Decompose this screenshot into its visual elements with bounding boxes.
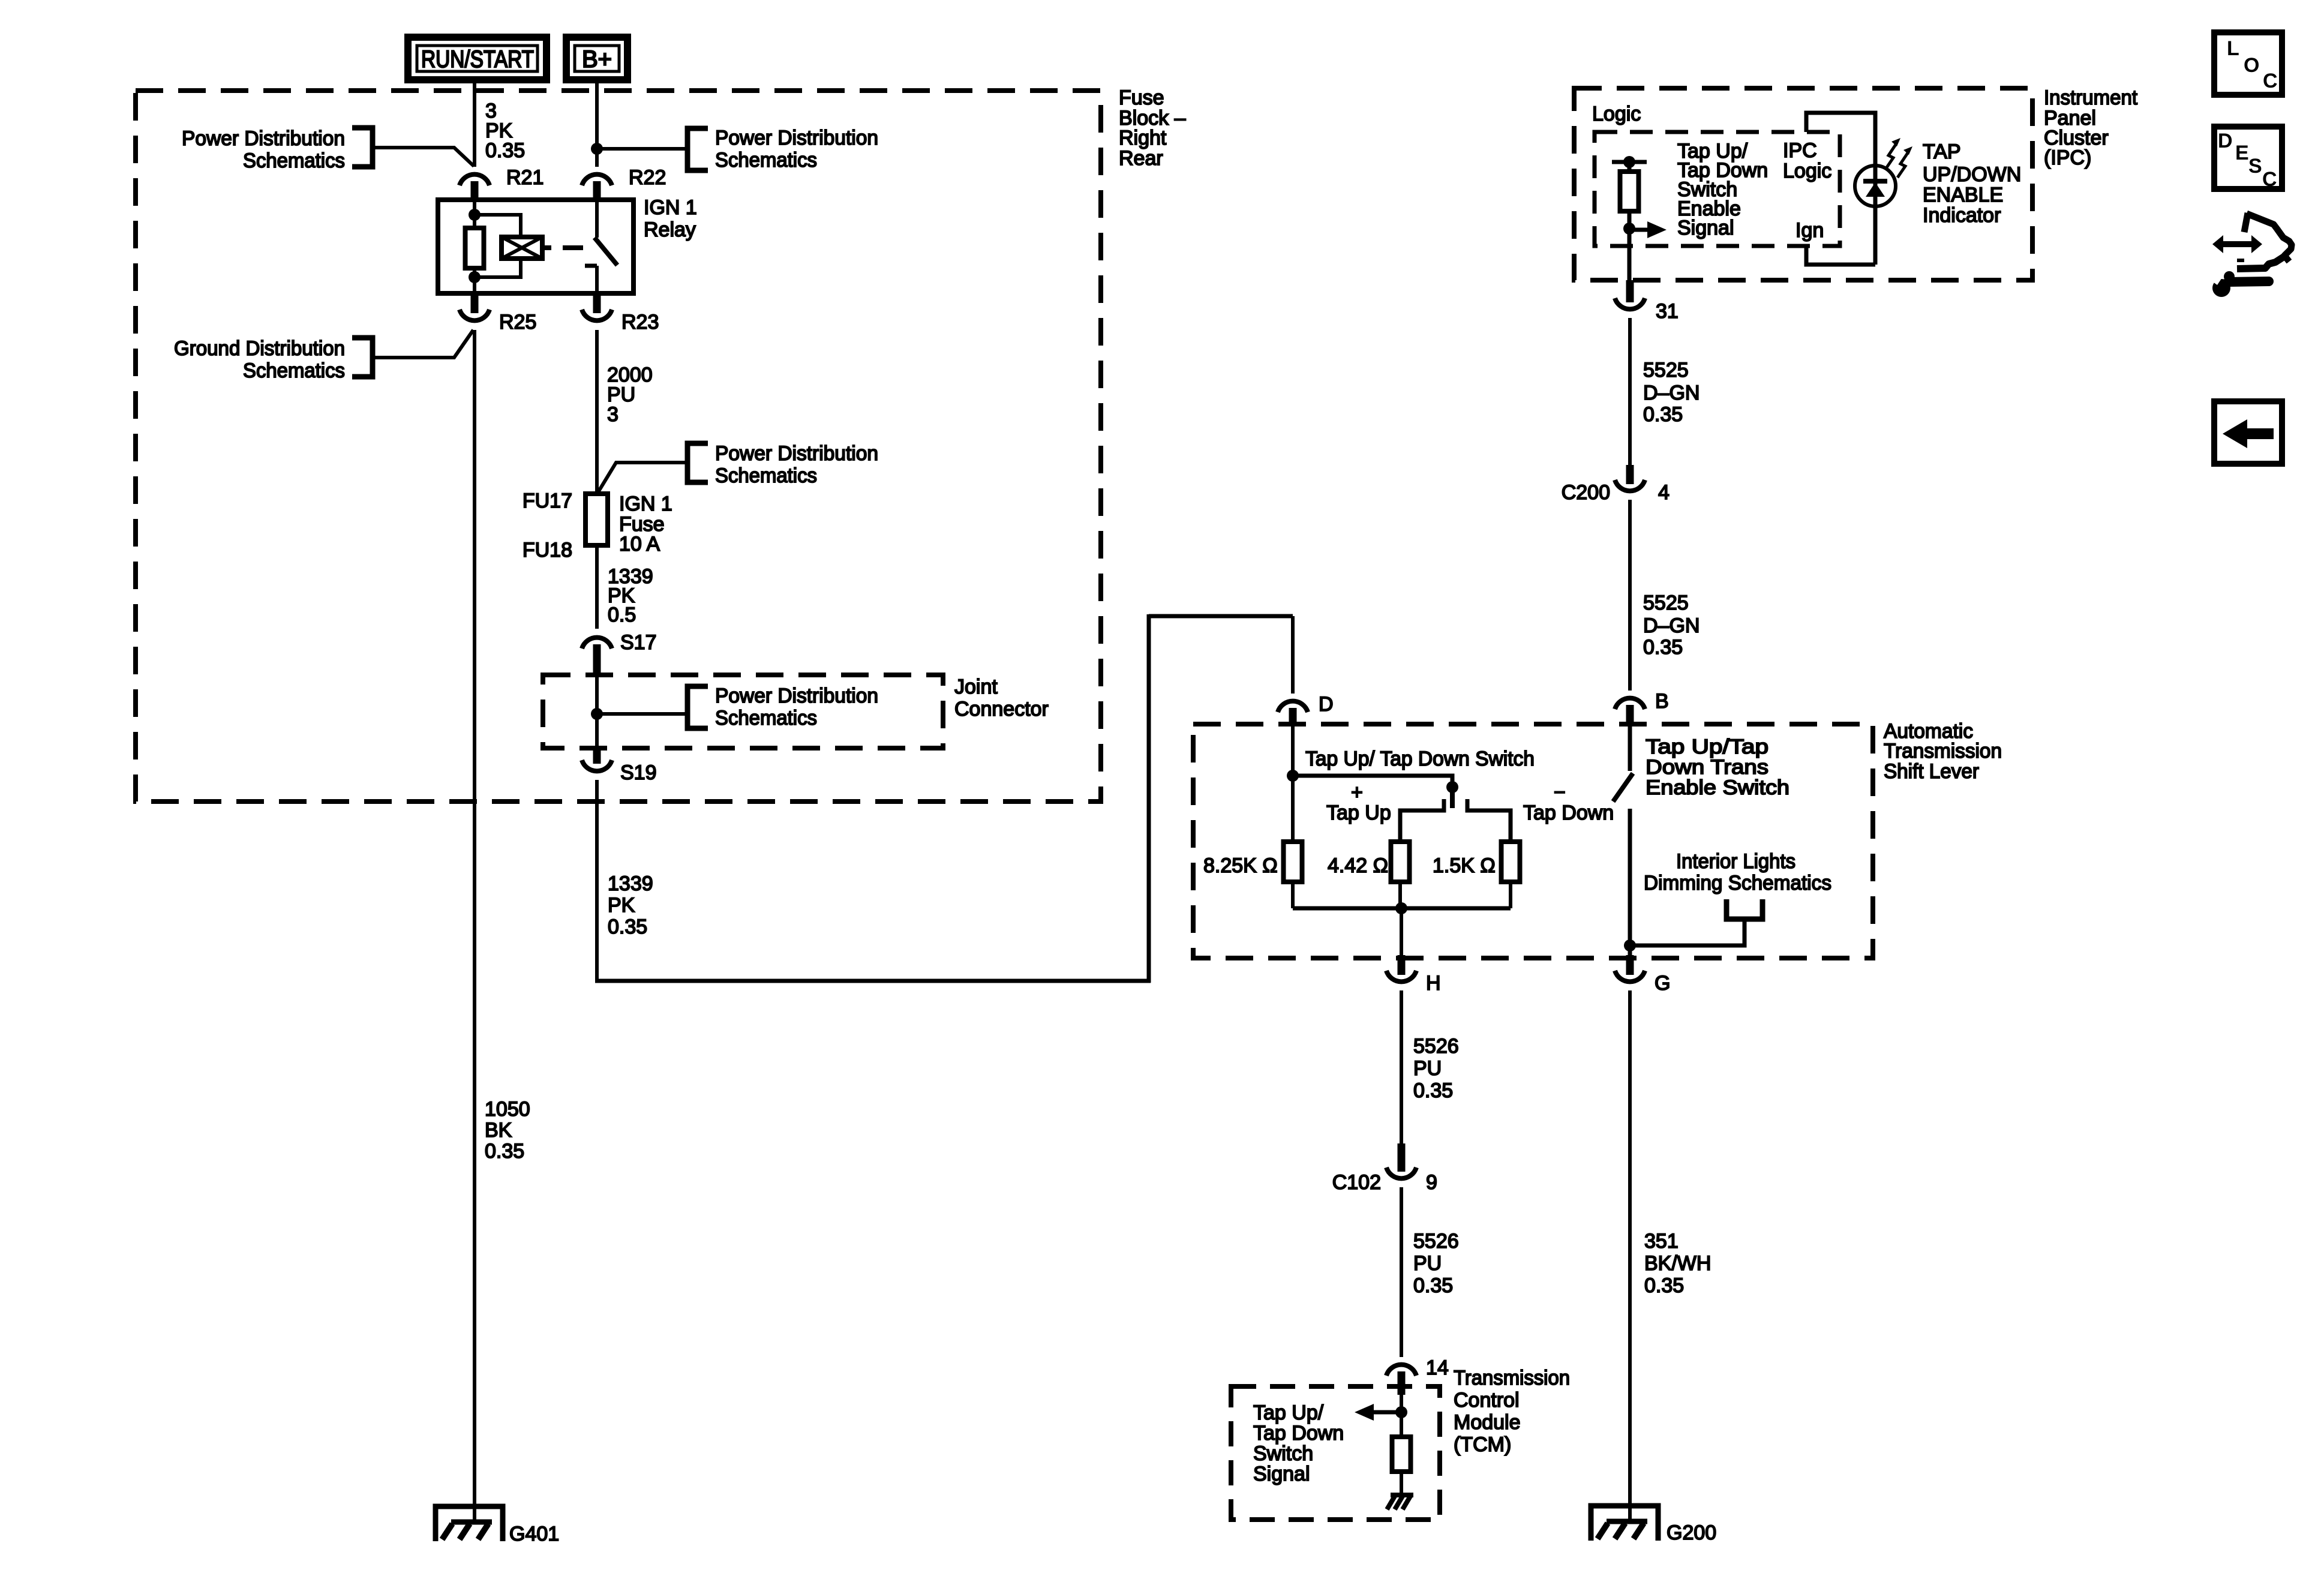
icon box back arrow <box>2214 401 2282 464</box>
resistor 1.5K <box>1502 842 1520 882</box>
svg-text:L: L <box>2227 37 2239 60</box>
wire R25 to G401 (1050 BK) <box>473 330 476 1522</box>
wire top jog to D <box>1149 614 1293 619</box>
svg-text:Schematics: Schematics <box>243 149 345 172</box>
svg-text:0.35: 0.35 <box>1413 1079 1453 1102</box>
connector 31 <box>1615 280 1679 323</box>
svg-text:0.35: 0.35 <box>485 1140 524 1163</box>
svg-text:B: B <box>1655 690 1669 713</box>
svg-text:FU17: FU17 <box>523 490 572 512</box>
svg-text:Tap Down: Tap Down <box>1523 801 1614 824</box>
icon repair (part outline) <box>2237 213 2292 269</box>
svg-text:4: 4 <box>1658 481 1670 504</box>
svg-text:0.35: 0.35 <box>608 915 647 938</box>
wire junction to bracket (joint) <box>597 712 686 716</box>
label IGN 1 Relay <box>644 196 697 241</box>
junction node arrow <box>1623 223 1635 235</box>
signal arrow (points left) <box>1355 1404 1401 1421</box>
label circuit 5525 D-GN 0.35 (lower) <box>1643 592 1700 659</box>
enable signal arrow (points right) <box>1629 221 1667 238</box>
label circuit 5526 PU 0.35 (upper) <box>1413 1035 1459 1102</box>
svg-text:R22: R22 <box>629 166 666 189</box>
relay coil resistor <box>466 228 484 268</box>
resistor 4.42 <box>1391 842 1410 882</box>
automatic transmission shift lever dashed box <box>1193 724 1873 958</box>
coil loop wire top <box>475 215 521 237</box>
svg-text:Control: Control <box>1454 1389 1520 1412</box>
label Fuse Block - Right Rear <box>1119 86 1186 170</box>
svg-text:Down Trans: Down Trans <box>1646 756 1768 779</box>
connector S17 <box>582 631 657 675</box>
transmission control module dashed box <box>1231 1386 1440 1520</box>
svg-text:1050: 1050 <box>485 1098 530 1121</box>
bracket for Interior Lights Dimming <box>1727 899 1762 919</box>
relay switch wire lower <box>595 266 599 293</box>
wire G to G200 (351 BK/WH) <box>1628 990 1632 1521</box>
svg-text:G401: G401 <box>509 1523 559 1545</box>
svg-text:PU: PU <box>1413 1057 1442 1080</box>
icon repair (wrench) <box>2199 265 2269 297</box>
coil loop wire bottom <box>475 259 521 277</box>
junction node dimming branch <box>1624 939 1636 951</box>
wire H to C102 (5526 PU) <box>1400 990 1403 1143</box>
relay switch blade <box>594 238 617 265</box>
destination label Power Distribution Schematics (joint) <box>715 685 878 730</box>
svg-text:TAP: TAP <box>1923 140 1961 163</box>
indicator LED circle <box>1855 166 1896 206</box>
svg-text:G200: G200 <box>1667 1521 1716 1544</box>
svg-text:Power Distribution: Power Distribution <box>182 127 345 150</box>
TCM pull resistor <box>1392 1437 1411 1472</box>
svg-text:E: E <box>2235 142 2249 164</box>
connector R21 <box>460 166 544 200</box>
connector R22 <box>582 166 666 200</box>
wire 31 to C200 (5525 D-GN) <box>1628 318 1632 465</box>
svg-text:S19: S19 <box>620 761 657 784</box>
svg-text:D: D <box>1319 693 1334 716</box>
svg-text:IGN 1: IGN 1 <box>644 196 697 219</box>
junction node bottom bus <box>1395 902 1407 914</box>
relay switch wire upper <box>595 200 599 238</box>
IPC logic inner dashed box <box>1595 132 1840 246</box>
svg-text:14: 14 <box>1426 1356 1449 1379</box>
wire D into box <box>1291 724 1295 842</box>
svg-text:PK: PK <box>608 894 635 917</box>
svg-text:Switch: Switch <box>1253 1442 1313 1465</box>
enable signal T-bar <box>1612 160 1647 164</box>
bracket for Power Distribution (joint) <box>687 686 708 728</box>
IPC enable resistor <box>1620 172 1639 211</box>
svg-text:IGN 1: IGN 1 <box>619 493 672 515</box>
label circuit 2000 PU 3 <box>607 364 653 426</box>
svg-text:PU: PU <box>1413 1252 1442 1275</box>
bracket for Power Distribution (R22) <box>687 128 708 170</box>
svg-text:5525: 5525 <box>1643 592 1689 614</box>
svg-text:Enable Switch: Enable Switch <box>1646 776 1789 799</box>
label circuit 1050 BK 0.35 <box>485 1098 530 1163</box>
svg-text:Rear: Rear <box>1119 147 1163 170</box>
svg-text:Indicator: Indicator <box>1923 204 2001 227</box>
label circuit 1339 PK 0.5 <box>608 565 653 626</box>
LED return wire bottom <box>1806 246 1875 265</box>
wire T-bar to resistor <box>1628 162 1632 172</box>
svg-text:(TCM): (TCM) <box>1454 1433 1511 1456</box>
wire RUN/START to R21 <box>473 80 476 167</box>
junction node switch pole <box>1446 781 1458 793</box>
wire S19 down (1339 PK 0.35) <box>595 780 599 983</box>
svg-text:Instrument: Instrument <box>2044 86 2138 109</box>
wire R23 to fuse (2000 PU) <box>595 330 599 494</box>
connector C102 pin 9 <box>1332 1143 1437 1194</box>
icon box LOC <box>2214 32 2282 95</box>
wire riser up <box>1147 614 1151 983</box>
LED feed wire top <box>1806 113 1875 168</box>
svg-text:S: S <box>2248 155 2262 178</box>
wire through joint connector <box>595 675 599 748</box>
wire down to connector D <box>1291 616 1295 694</box>
wire 14 into TCM <box>1400 1395 1403 1437</box>
connector D <box>1278 693 1334 724</box>
svg-text:0.35: 0.35 <box>1643 636 1683 659</box>
svg-text:S17: S17 <box>620 631 657 654</box>
svg-text:−: − <box>1554 781 1566 804</box>
svg-text:5526: 5526 <box>1413 1035 1459 1058</box>
svg-text:10 A: 10 A <box>619 533 660 556</box>
svg-text:R25: R25 <box>499 311 536 334</box>
connector G <box>1615 955 1670 995</box>
svg-text:0.35: 0.35 <box>1413 1274 1453 1297</box>
svg-text:4.42 Ω: 4.42 Ω <box>1328 854 1388 877</box>
label Automatic Transmission Shift Lever <box>1884 720 2002 783</box>
svg-text:D: D <box>2218 130 2233 152</box>
fuse IGN 1 FU17/FU18 <box>585 494 608 545</box>
svg-text:Tap Up/ Tap Down Switch: Tap Up/ Tap Down Switch <box>1305 748 1535 770</box>
svg-text:Signal: Signal <box>1677 217 1734 239</box>
junction node coil top <box>469 209 481 221</box>
wire to switch pole <box>1293 776 1452 789</box>
svg-text:Tap Up/Tap: Tap Up/Tap <box>1646 736 1768 758</box>
connector S19 <box>582 748 657 784</box>
label Tap Up/ Tap Down Switch Enable Signal <box>1677 140 1768 239</box>
svg-text:RUN/START: RUN/START <box>421 46 534 73</box>
junction node D branch <box>1287 770 1299 782</box>
LED light arrows <box>1885 138 1912 178</box>
svg-text:Logic: Logic <box>1783 160 1831 182</box>
svg-text:C102: C102 <box>1332 1171 1381 1194</box>
svg-text:Connector: Connector <box>954 698 1049 721</box>
svg-text:0.35: 0.35 <box>1644 1274 1684 1297</box>
relay coil symbol (crossed box) <box>502 237 542 259</box>
wire resistor to ground <box>1400 1472 1403 1495</box>
svg-text:5526: 5526 <box>1413 1230 1459 1253</box>
svg-text:Transmission: Transmission <box>1884 740 2002 763</box>
svg-text:C: C <box>2263 70 2278 92</box>
bracket for Power Distribution (R21) <box>352 128 373 167</box>
svg-text:Right: Right <box>1119 127 1167 149</box>
svg-text:BK: BK <box>485 1119 512 1142</box>
svg-text:R21: R21 <box>506 166 544 189</box>
svg-text:UP/DOWN: UP/DOWN <box>1923 163 2021 186</box>
svg-text:Module: Module <box>1454 1411 1521 1434</box>
svg-text:BK/WH: BK/WH <box>1644 1252 1711 1275</box>
wire bracket to R21 <box>373 148 474 166</box>
label Instrument Panel Cluster (IPC) <box>2044 86 2138 169</box>
power feed box B+ <box>566 37 627 80</box>
icon box DESC <box>2214 127 2282 191</box>
svg-text:5525: 5525 <box>1643 359 1689 382</box>
label Transmission Control Module (TCM) <box>1454 1367 1570 1456</box>
svg-text:Power Distribution: Power Distribution <box>715 127 878 149</box>
label circuit 3 PK 0.35 <box>485 100 525 162</box>
label IGN 1 Fuse 10 A <box>619 493 672 556</box>
destination label Power Distribution Schematics (R22) <box>715 127 878 172</box>
wire bracket to R25 <box>373 330 473 358</box>
connector R25 <box>460 293 536 334</box>
connector H <box>1386 955 1441 995</box>
svg-text:Ground Distribution: Ground Distribution <box>174 337 345 360</box>
instrument panel cluster dashed box <box>1574 88 2032 280</box>
label - Tap Down <box>1523 781 1614 824</box>
trans enable switch wire upper <box>1628 724 1632 771</box>
svg-text:B+: B+ <box>582 46 612 73</box>
label TAP UP/DOWN ENABLE Indicator <box>1923 140 2021 227</box>
wire junction to bracket (R22) <box>597 147 686 151</box>
svg-text:FU18: FU18 <box>523 539 572 562</box>
svg-text:Tap Up: Tap Up <box>1326 801 1391 824</box>
wire C200 to B (5525 D-GN) <box>1628 500 1632 691</box>
svg-text:IPC: IPC <box>1783 139 1817 162</box>
svg-text:9: 9 <box>1426 1171 1437 1194</box>
bottom bus wire <box>1291 882 1295 908</box>
junction node T-bar <box>1623 156 1635 168</box>
tap down contact wire <box>1467 799 1511 842</box>
connector C200 pin 4 <box>1562 465 1670 504</box>
label Tap Up/Tap Down Trans Enable Switch <box>1646 736 1789 799</box>
svg-text:Logic: Logic <box>1592 103 1641 125</box>
svg-text:Schematics: Schematics <box>715 149 817 172</box>
svg-text:D–GN: D–GN <box>1643 382 1700 404</box>
label Joint Connector <box>954 676 1049 721</box>
trans enable switch wire lower <box>1628 809 1632 955</box>
ground G200 <box>1591 1506 1716 1544</box>
svg-text:0.35: 0.35 <box>1643 403 1683 426</box>
coil right lead <box>542 245 551 250</box>
wire C102 to TCM (5526 PU) <box>1400 1187 1403 1357</box>
relay box IGN 1 <box>438 200 633 293</box>
trans enable switch blade <box>1613 773 1633 801</box>
svg-text:Joint: Joint <box>954 676 998 698</box>
bracket for Ground Distribution <box>352 338 373 377</box>
junction node in joint connector <box>591 708 603 720</box>
connector 14 <box>1386 1356 1449 1395</box>
switch pole (momentary contact) <box>1450 787 1455 808</box>
svg-text:Transmission: Transmission <box>1454 1367 1570 1389</box>
svg-text:D–GN: D–GN <box>1643 614 1700 637</box>
svg-text:O: O <box>2244 54 2259 77</box>
svg-text:C200: C200 <box>1562 481 1610 504</box>
label + Tap Up <box>1326 781 1391 824</box>
svg-text:Power Distribution: Power Distribution <box>715 442 878 465</box>
svg-text:Power Distribution: Power Distribution <box>715 685 878 707</box>
LED wire through indicator <box>1873 166 1878 265</box>
destination label Power Distribution Schematics (R21) <box>182 127 345 172</box>
svg-text:Tap Down: Tap Down <box>1253 1422 1344 1445</box>
power feed box RUN/START <box>408 37 547 80</box>
relay coil branch wire lower <box>473 268 476 293</box>
svg-text:Ign: Ign <box>1795 219 1824 242</box>
wire dimming branch <box>1630 919 1744 945</box>
label circuit 5526 PU 0.35 (lower) <box>1413 1230 1459 1297</box>
svg-text:3: 3 <box>607 403 618 426</box>
svg-text:R23: R23 <box>621 311 659 334</box>
svg-text:Tap Up/: Tap Up/ <box>1253 1401 1324 1424</box>
svg-text:Dimming Schematics: Dimming Schematics <box>1644 872 1831 894</box>
icon repair (double arrow) <box>2212 235 2262 253</box>
ground G401 <box>436 1506 559 1545</box>
actuation dashed link <box>563 245 583 250</box>
wire bus to H <box>1400 908 1403 955</box>
connector R23 <box>582 293 659 334</box>
svg-text:Interior Lights: Interior Lights <box>1676 850 1795 873</box>
connector B <box>1615 690 1669 724</box>
svg-text:0.35: 0.35 <box>485 139 525 162</box>
svg-text:1339: 1339 <box>608 872 653 895</box>
junction node on B+ wire <box>591 143 603 155</box>
svg-text:0.5: 0.5 <box>608 604 636 626</box>
wire bracket to fuse top <box>597 463 686 493</box>
resistor 8.25K <box>1284 842 1302 882</box>
svg-text:Schematics: Schematics <box>715 707 817 730</box>
joint connector dashed box <box>543 675 943 748</box>
junction node coil bottom <box>469 271 481 283</box>
label IPC Logic <box>1783 139 1831 182</box>
relay switch lower contact tick <box>585 264 597 268</box>
svg-text:G: G <box>1655 972 1670 995</box>
wire fuse to S17 (1339 PK 0.5) <box>595 545 599 629</box>
svg-text:H: H <box>1426 972 1441 995</box>
svg-text:Signal: Signal <box>1253 1463 1310 1485</box>
svg-text:Relay: Relay <box>644 218 696 241</box>
label Interior Lights Dimming Schematics <box>1644 850 1831 894</box>
svg-text:8.25K Ω: 8.25K Ω <box>1203 854 1278 877</box>
svg-text:31: 31 <box>1656 300 1679 323</box>
label circuit 1339 PK 0.35 <box>608 872 653 938</box>
svg-text:Schematics: Schematics <box>715 464 817 487</box>
TCM internal ground <box>1387 1495 1413 1509</box>
svg-text:351: 351 <box>1644 1230 1679 1253</box>
svg-text:Fuse: Fuse <box>1119 86 1164 109</box>
relay coil branch wire upper <box>473 200 476 228</box>
LED diode symbol <box>1863 181 1887 197</box>
svg-text:Shift Lever: Shift Lever <box>1884 760 1979 783</box>
junction node TCM input <box>1395 1406 1407 1418</box>
label circuit 5525 D-GN 0.35 (upper) <box>1643 359 1700 426</box>
destination label Ground Distribution Schematics <box>174 337 345 382</box>
wire B+ to R22 <box>595 80 599 167</box>
bracket for Power Distribution (fuse) <box>687 443 708 482</box>
label circuit 351 BK/WH 0.35 <box>1644 1230 1711 1297</box>
svg-text:C: C <box>2262 168 2277 191</box>
wire horizontal jog to riser <box>595 979 1151 983</box>
svg-text:ENABLE: ENABLE <box>1923 184 2003 206</box>
svg-text:(IPC): (IPC) <box>2044 146 2091 169</box>
wire resistor to arrow node <box>1628 211 1632 280</box>
svg-text:1.5K Ω: 1.5K Ω <box>1433 854 1496 877</box>
fuse block - right rear dashed outline <box>136 91 1101 801</box>
destination label Power Distribution Schematics (fuse) <box>715 442 878 487</box>
label Tap Up/ Tap Down Switch Signal <box>1253 1401 1344 1485</box>
svg-text:Schematics: Schematics <box>243 359 345 382</box>
svg-text:+: + <box>1351 781 1363 804</box>
tap up contact wire <box>1400 799 1444 842</box>
